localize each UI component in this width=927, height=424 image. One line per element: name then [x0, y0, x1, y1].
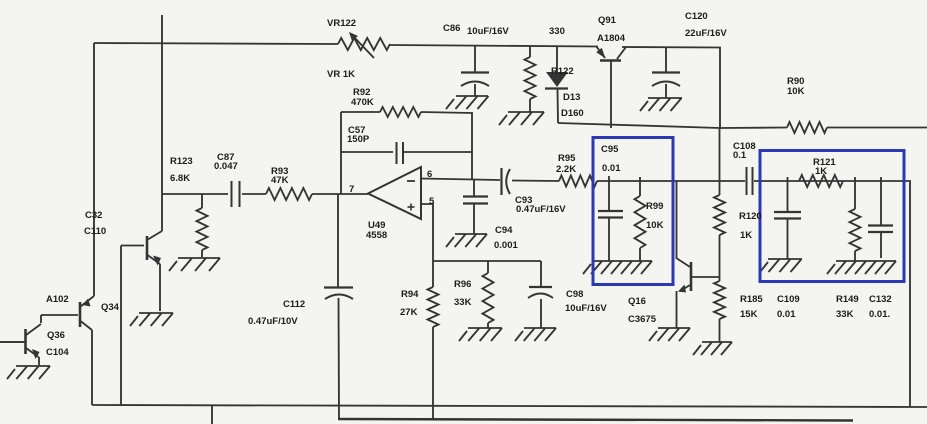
svg-text:470K: 470K — [351, 97, 374, 108]
ground (C86) — [446, 96, 489, 109]
ground (R185) — [693, 342, 732, 355]
resistor R185 — [714, 281, 725, 319]
resistor R123 — [201, 194, 203, 208]
wire: R96 bottom lead — [487, 323, 489, 328]
wire: main signal wire left (input to op-amp) — [162, 193, 228, 195]
ground (C109) — [760, 259, 802, 272]
svg-text:C110: C110 — [84, 226, 106, 237]
wire: Q36 emitter lead — [38, 357, 40, 365]
wire: R99 top lead — [639, 177, 641, 196]
transistor Q91 — [596, 46, 605, 58]
wire: Q34 base wire from Q36 collector — [41, 314, 78, 316]
svg-text:A1804: A1804 — [597, 33, 626, 44]
wire: Q33 emitter lead — [159, 264, 161, 311]
svg-text:C109: C109 — [777, 294, 800, 305]
svg-text:R120: R120 — [739, 211, 762, 222]
svg-text:6: 6 — [427, 169, 432, 180]
svg-text:C86: C86 — [443, 23, 460, 34]
resistor R121 — [799, 175, 843, 187]
resistor R92 — [380, 107, 421, 117]
svg-text:0.47uF/10V: 0.47uF/10V — [248, 316, 298, 327]
svg-text:33K: 33K — [454, 297, 472, 308]
svg-text:10uF/16V: 10uF/16V — [565, 303, 607, 314]
wire: C98 bottom lead — [540, 299, 542, 328]
svg-text:5: 5 — [429, 196, 435, 207]
svg-text:Q36: Q36 — [47, 330, 65, 341]
svg-text:47K: 47K — [271, 175, 289, 186]
resistor R93 — [266, 188, 312, 200]
svg-text:0.001: 0.001 — [494, 240, 518, 251]
svg-text:R123: R123 — [170, 156, 193, 167]
ground (C120) — [640, 98, 682, 111]
capacitor C120 — [652, 71, 680, 73]
capacitor C57 — [396, 142, 398, 164]
svg-text:0.01: 0.01 — [777, 309, 796, 320]
capacitor C87 — [231, 181, 233, 207]
wire: C112 top lead — [337, 194, 339, 287]
wire: R95 to C108 (through nodes C95,R99,Q16,divider) — [597, 180, 745, 182]
wire: Q36 collector vertical stub — [40, 315, 42, 323]
resistor R96 — [483, 273, 494, 323]
svg-text:10K: 10K — [787, 86, 805, 97]
wire: Q16 emitter vertical — [676, 291, 678, 328]
wire: R99 bottom lead — [639, 248, 641, 261]
wire: Q16 base wire — [692, 276, 720, 278]
wire: C94 vertical top lead — [473, 179, 475, 196]
svg-text:R99: R99 — [646, 201, 663, 212]
svg-text:0.01: 0.01 — [602, 163, 621, 174]
wire: feedback left vertical — [340, 112, 342, 194]
wire: vertical stub at x=162 from top — [161, 15, 163, 194]
wire: C120 bottom lead — [665, 84, 667, 98]
svg-text:R94: R94 — [401, 289, 419, 300]
svg-text:R185: R185 — [740, 294, 763, 305]
svg-text:0.047: 0.047 — [214, 161, 238, 172]
wire: segment R93 to op-amp output node — [312, 193, 368, 195]
ground (C95/R99 shared) — [583, 261, 652, 274]
transistor Q34 — [79, 302, 82, 327]
ground (Q33 emitter) — [130, 313, 173, 326]
resistor R120 — [714, 195, 725, 235]
svg-text:330: 330 — [549, 26, 565, 37]
capacitor C98 — [529, 286, 552, 288]
resistor 330 — [525, 57, 536, 99]
wire: bottom stub down at x=212 — [211, 406, 213, 424]
wire: C57 branch left — [341, 151, 393, 153]
ground (330) — [499, 112, 544, 125]
wire: C98 top lead — [540, 261, 542, 286]
wire: Q33 collector lead — [161, 194, 163, 231]
svg-text:D13: D13 — [563, 92, 580, 103]
capacitor C93 — [500, 168, 502, 195]
wire: R94 top lead — [432, 261, 434, 287]
ground (C94) — [446, 234, 487, 247]
svg-text:C104: C104 — [46, 347, 69, 358]
svg-text:C94: C94 — [495, 225, 513, 236]
wire: segment C87 to R93 — [242, 193, 266, 195]
svg-text:A102: A102 — [46, 294, 69, 305]
svg-text:R122: R122 — [551, 66, 574, 77]
capacitor C109 — [774, 211, 801, 213]
op-amp U49 — [368, 167, 421, 219]
wire: Q34 collector to bottom bus corner — [91, 330, 93, 405]
svg-text:33K: 33K — [836, 309, 854, 320]
svg-text:R95: R95 — [558, 153, 576, 164]
wire: pin5 stub — [421, 204, 433, 261]
wire: D13 cathode lead — [557, 89, 560, 123]
wire: bias rail to R90 — [720, 127, 787, 130]
svg-text:C3675: C3675 — [628, 314, 657, 325]
svg-text:C95: C95 — [601, 144, 619, 155]
svg-text:1K: 1K — [740, 230, 752, 241]
svg-text:0.47uF/16V: 0.47uF/16V — [516, 204, 566, 215]
resistor R95 — [559, 176, 597, 187]
svg-text:C132: C132 — [869, 294, 892, 305]
svg-text:C32: C32 — [85, 210, 102, 221]
wire: C95 node tick — [608, 176, 610, 211]
wire: Q33 base stub — [121, 245, 144, 247]
capacitor C86 — [461, 71, 489, 73]
svg-text:C120: C120 — [685, 11, 708, 22]
wire: 330 resistor bottom lead — [529, 99, 531, 112]
svg-text:0.1: 0.1 — [733, 150, 747, 161]
wire: Q33 base vertical to bottom bus — [120, 246, 122, 407]
wire: R94 bottom lead to bottom bus — [432, 327, 434, 419]
wire: C86 bottom lead — [474, 84, 476, 96]
resistor R90 — [787, 122, 827, 133]
resistor R94 — [428, 287, 439, 327]
highlight box 1 (C95/R99 section) — [593, 138, 673, 285]
highlight box 2 (R121/C109/R149/C132 section) — [760, 151, 904, 282]
svg-text:27K: 27K — [400, 307, 418, 318]
wire: 330 resistor top lead — [529, 46, 531, 58]
wire: top supply rail right segment to corner — [622, 47, 720, 128]
svg-text:22uF/16V: 22uF/16V — [685, 28, 727, 39]
wire: R92 right to vertical — [421, 112, 472, 113]
wire: C86 top lead — [474, 45, 476, 72]
wire: C95 bottom lead — [608, 218, 610, 261]
transistor Q36 — [24, 329, 27, 354]
svg-text:7: 7 — [349, 184, 354, 195]
capacitor C112 — [324, 286, 353, 288]
svg-text:R96: R96 — [454, 279, 471, 290]
wire: bias divider vertical upper — [719, 128, 721, 195]
svg-text:VR122: VR122 — [327, 18, 356, 29]
svg-text:150P: 150P — [347, 134, 370, 145]
wire: base bias rail from D13 — [558, 123, 720, 128]
wire: R90 to right edge — [827, 127, 927, 129]
svg-text:Q91: Q91 — [598, 15, 617, 26]
wire: left vertical rail — [93, 43, 95, 296]
svg-text:C112: C112 — [283, 299, 305, 310]
transistor Q16 — [690, 262, 693, 291]
wire: R96 top lead — [487, 261, 489, 273]
svg-text:R149: R149 — [836, 294, 859, 305]
ground (Q16 emitter) — [649, 328, 690, 341]
wire: C94 bottom lead — [473, 204, 475, 234]
svg-text:VR 1K: VR 1K — [327, 69, 355, 80]
svg-text:10uF/16V: 10uF/16V — [467, 26, 509, 37]
wire: C112 bottom lead to bottom bus 2 — [338, 298, 341, 419]
capacitor C95 — [598, 210, 623, 212]
svg-text:6.8K: 6.8K — [170, 173, 190, 184]
wire: branch wire y=261 (R94/R96/C98) — [433, 260, 541, 262]
wire: top supply rail left segment — [94, 43, 338, 44]
capacitor C108 — [746, 167, 748, 195]
ground (Q36 emitter) — [7, 366, 50, 379]
diode D13 — [546, 72, 568, 87]
wire: feedback top (R92 branch) — [341, 111, 380, 113]
svg-text:10K: 10K — [646, 220, 664, 231]
svg-text:D160: D160 — [561, 108, 584, 119]
resistor R149 — [854, 177, 856, 209]
svg-text:Q34: Q34 — [101, 302, 120, 313]
wire: Q16 collector vertical — [676, 181, 678, 259]
svg-text:15K: 15K — [740, 309, 758, 320]
ground (R96) — [459, 328, 502, 341]
potentiometer VR122 — [338, 38, 390, 50]
wire: D13 anode lead — [556, 46, 558, 72]
wire: top supply rail middle segment — [390, 45, 598, 47]
wire: feedback right vertical — [471, 112, 473, 179]
svg-text:0.01.: 0.01. — [869, 309, 890, 320]
svg-text:4558: 4558 — [366, 230, 387, 241]
wire: Q36 base wire from left edge — [0, 341, 24, 343]
svg-text:Q16: Q16 — [628, 296, 646, 307]
wire: pin6 wire op-amp to C93 — [421, 179, 500, 181]
wire: C57 branch right — [404, 151, 472, 153]
svg-text:1K: 1K — [815, 166, 827, 177]
resistor R99 — [635, 196, 646, 248]
wire: C120 top lead — [665, 47, 667, 72]
capacitor C132 — [868, 224, 893, 226]
transistor Q33 — [146, 236, 149, 260]
svg-text:2.2K: 2.2K — [556, 164, 576, 175]
wire: C108 to right corner — [754, 181, 910, 406]
capacitor C94 — [463, 195, 488, 197]
ground (R149/C132 shared) — [827, 261, 896, 274]
ground (C98) — [515, 328, 556, 341]
wire: divider between R120 and R185 — [719, 235, 721, 281]
wire: bottom bus 1 — [92, 405, 927, 407]
wire: C93 to R95 — [512, 180, 559, 183]
svg-text:C98: C98 — [566, 289, 583, 300]
ground (R123) — [169, 258, 220, 271]
wire: R185 bottom lead — [719, 319, 721, 342]
wire: bottom bus 2 — [338, 419, 853, 421]
